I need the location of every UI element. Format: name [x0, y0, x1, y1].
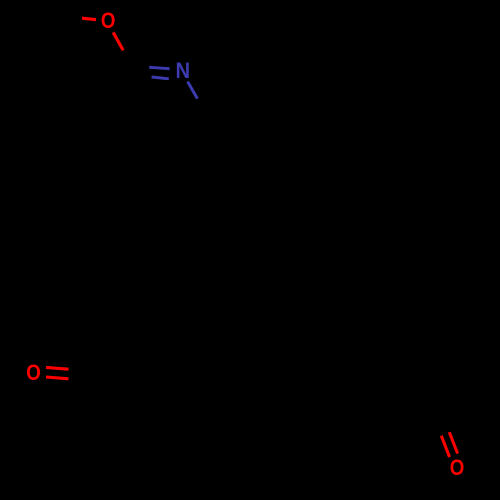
svg-text:O: O: [26, 362, 41, 386]
bond C=O right line (right ketone): [449, 432, 457, 453]
bond CH3-O (methoxy methyl half-bond): [82, 18, 96, 19]
bond C=O lower line (left ketone): [46, 377, 69, 379]
svg-text:O: O: [101, 10, 116, 34]
bond C=O upper line (left ketone): [46, 367, 69, 369]
svg-text:O: O: [450, 457, 465, 481]
bond C=O left line (right ketone): [441, 436, 449, 457]
bond C=N upper line (imine double bond): [149, 67, 169, 68]
svg-text:N: N: [175, 59, 190, 83]
bond N-C (nitrogen to carbon half-bond): [188, 82, 198, 99]
bond C=N lower line (imine double bond): [152, 77, 169, 79]
bond O1-C (oxygen to imine carbon half-bond): [113, 32, 123, 50]
